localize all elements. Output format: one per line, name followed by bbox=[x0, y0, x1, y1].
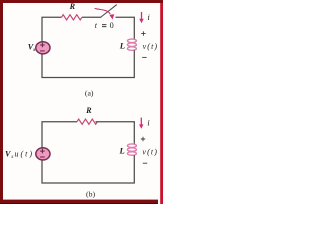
wire: circuit (b) top-left segment from source to resistor bbox=[42, 122, 77, 148]
inductor L (b) bbox=[127, 144, 136, 155]
label t = 0 bbox=[95, 21, 114, 30]
inductor L (a) bbox=[127, 39, 136, 50]
svg-text:(a): (a) bbox=[85, 88, 94, 97]
polarity − of v(t) (a) bbox=[142, 56, 146, 58]
current arrow i (b) bbox=[139, 118, 143, 129]
voltage source Vs u(t) (b) bbox=[36, 148, 50, 160]
svg-text:s: s bbox=[11, 154, 13, 160]
wire: switch right contact to top-right corner and down (a) bbox=[116, 17, 135, 39]
wire: resistor to top-right corner and down (b) bbox=[96, 122, 135, 145]
svg-text:(b): (b) bbox=[86, 189, 95, 198]
svg-text:L: L bbox=[119, 40, 125, 50]
svg-text:R: R bbox=[85, 106, 92, 115]
svg-text:0: 0 bbox=[110, 21, 114, 30]
resistor R (a) bbox=[62, 15, 82, 20]
switch blade (a) bbox=[101, 5, 117, 17]
polarity + of v(t) (b) bbox=[141, 137, 145, 141]
wire: below inductor, bottom side (a) bbox=[42, 50, 134, 77]
resistor R (b) bbox=[77, 119, 97, 124]
polarity + of v(t) (a) bbox=[141, 31, 145, 35]
polarity − of v(t) (b) bbox=[143, 162, 147, 164]
svg-text:L: L bbox=[118, 146, 124, 156]
current arrow i (a) bbox=[139, 12, 143, 23]
wire: circuit (a) top-left segment from source to resistor bbox=[42, 17, 62, 41]
voltage source Vs (a) bbox=[36, 42, 50, 54]
switch closing arrow t=0 (a) bbox=[95, 8, 111, 14]
wire: below inductor, bottom side (b) bbox=[42, 155, 134, 183]
svg-text:R: R bbox=[69, 2, 76, 11]
wire: resistor to switch left contact (a) bbox=[82, 16, 101, 18]
